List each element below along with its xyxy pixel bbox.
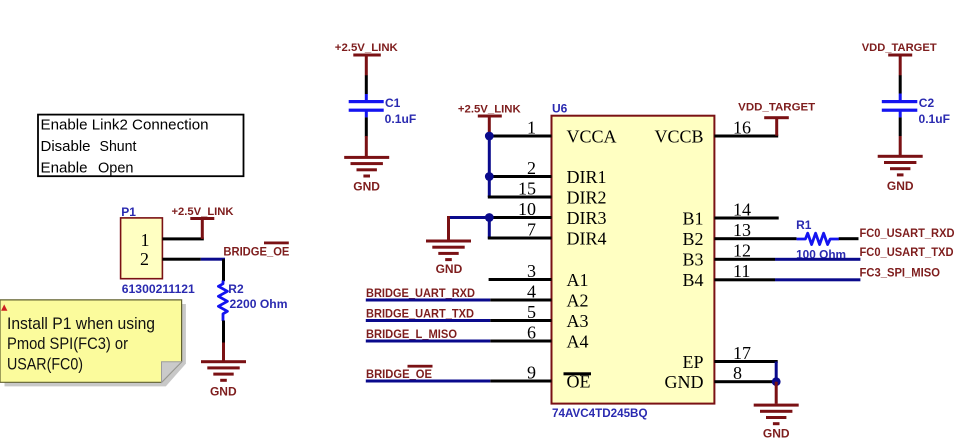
svg-text:B1: B1 [682,209,703,229]
svg-text:C1: C1 [385,96,401,110]
svg-text:Pmod SPI(FC3) or: Pmod SPI(FC3) or [7,334,128,353]
svg-text:B3: B3 [682,250,703,270]
svg-text:BRIDGE_OE: BRIDGE_OE [366,369,432,381]
svg-text:11: 11 [733,261,750,281]
svg-text:P1: P1 [121,205,136,219]
wire U6 pin8 [714,380,776,383]
power port +2.5V_LINK at C1 [335,42,399,75]
svg-text:A4: A4 [567,332,589,352]
svg-text:VCCA: VCCA [567,127,617,147]
wire C1 to GND [365,111,368,117]
svg-text:R1: R1 [796,218,812,232]
svg-text:BRIDGE_L_MISO: BRIDGE_L_MISO [366,329,457,341]
wire U6 pin9 black [490,380,551,383]
svg-text:GND: GND [763,427,790,441]
junction dot pin10 [485,213,494,222]
U6 pin numbers right [733,118,751,384]
svg-text:12: 12 [733,241,751,261]
svg-text:Open: Open [98,160,134,176]
ground GND at DIR3 branch [426,216,471,276]
wire U6 pin14 [714,217,778,220]
svg-text:GND: GND [436,262,463,276]
svg-text:FC3_SPI_MISO: FC3_SPI_MISO [860,268,941,280]
svg-text:BRIDGE_OE: BRIDGE_OE [223,247,289,259]
svg-text:DIR1: DIR1 [567,167,607,187]
svg-text:B4: B4 [682,270,703,290]
svg-text:Shunt: Shunt [100,139,137,155]
sticky note shadow [5,304,186,386]
svg-text:Enable: Enable [41,160,88,176]
ground GND below C1 [344,136,389,193]
svg-text:Enable Link2 Connection: Enable Link2 Connection [41,118,209,134]
svg-text:GND: GND [353,179,380,193]
wire U6 pin16 [714,135,778,138]
svg-text:DIR3: DIR3 [567,208,607,228]
svg-text:1: 1 [141,230,150,250]
svg-text:VDD_TARGET: VDD_TARGET [862,42,937,54]
wire U6 pin3 stub [489,278,552,281]
svg-text:GND: GND [665,372,704,392]
net label BRIDGE_OE at P1 [223,242,289,259]
svg-text:C2: C2 [919,96,935,110]
ground GND at EP/GND pins [754,382,799,441]
svg-text:0.1uF: 0.1uF [919,112,951,126]
U6 pin names left [564,127,617,392]
svg-text:U6: U6 [552,101,568,115]
wire P1 pin2 (black) [162,258,200,261]
IC U6 body [552,101,715,419]
svg-text:GND: GND [887,179,914,193]
svg-text:FC0_USART_RXD: FC0_USART_RXD [860,228,955,240]
svg-text:2200 Ohm: 2200 Ohm [230,297,288,311]
wire U6 pin11 black [714,278,775,281]
power port VDD_TARGET at C2 [862,42,937,75]
wire down to R2 (black) [222,259,225,281]
capacitor C2 [882,96,950,126]
wire U6 pin11 blue [775,278,860,281]
wire U6 pin13 left of R1 [714,237,796,240]
svg-text:+2.5V_LINK: +2.5V_LINK [335,42,399,54]
wire U6 pin1 [489,135,552,138]
svg-text:2: 2 [140,249,149,269]
wire U6 pin4 black [490,299,551,302]
net label BRIDGE_OE at pin9 [366,365,433,381]
svg-text:A1: A1 [567,270,589,290]
svg-text:FC0_USART_TXD: FC0_USART_TXD [860,247,954,259]
wire U6 pin12 blue [775,258,860,261]
svg-text:0.1uF: 0.1uF [385,112,417,126]
wire U6 pin13 right of R1 [839,237,859,240]
svg-text:8: 8 [733,363,742,383]
wire U6 pin7 [488,237,552,240]
wire P1 pin2 (blue segment) [201,258,225,261]
svg-text:VCCB: VCCB [654,127,703,147]
wire blue vertical pin17 to pin8 [775,362,778,382]
wire U6 pin6 blue [366,340,490,343]
text note box [38,115,244,177]
wire U6 pin6 black [490,340,551,343]
wire power to C2 [899,75,902,93]
power port +2.5V_LINK at U6 pin1 [458,103,522,134]
resistor R2 [218,281,287,321]
svg-text:A2: A2 [567,291,589,311]
ground GND below R2 [201,343,246,399]
svg-text:74AVC4TD245BQ: 74AVC4TD245BQ [552,406,648,420]
svg-text:R2: R2 [228,282,244,296]
sticky note [0,300,182,382]
wire U6 pin12 black [714,258,775,261]
svg-text:B2: B2 [682,229,703,249]
svg-text:61300211121: 61300211121 [122,282,195,296]
wire U6 pin5 blue [366,319,490,322]
wire power to C1 [365,75,368,94]
resistor R1 [796,218,846,261]
svg-text:GND: GND [210,384,237,398]
svg-text:+2.5V_LINK: +2.5V_LINK [458,103,522,115]
wire U6 pin4 blue [366,299,490,302]
wire R2 to GND [222,321,225,344]
svg-text:A3: A3 [567,311,589,331]
junction dot pin2 [485,172,494,181]
svg-text:+2.5V_LINK: +2.5V_LINK [172,206,235,218]
junction dot pin1 [485,132,494,141]
U6 pin numbers left [518,118,536,383]
connector P1 [121,205,196,296]
svg-text:Disable: Disable [41,139,91,155]
svg-text:DIR2: DIR2 [567,188,607,208]
wire U6 pin5 black [490,319,551,322]
wire U6 pin10 [489,216,552,219]
svg-text:BRIDGE_UART_TXD: BRIDGE_UART_TXD [366,308,474,320]
wire U6 pin15 [488,196,552,199]
wire C2 to GND [899,111,902,117]
capacitor C1 [349,96,417,126]
wire blue vertical pin1-pin15 [488,136,491,197]
wire blue vertical pin10-pin7 [488,218,491,239]
svg-text:EP: EP [682,352,703,372]
svg-text:DIR4: DIR4 [567,229,607,249]
svg-text:VDD_TARGET: VDD_TARGET [738,102,815,114]
note marker triangle [1,304,7,310]
wire blue GND branch at pin10 [449,216,491,219]
wire U6 pin17 [714,360,777,363]
ground GND below C2 [878,136,923,193]
junction dot pin8 [772,377,781,386]
wire U6 pin9 blue [366,380,490,383]
U6 pin names right [654,127,703,393]
power port VDD_TARGET at pin16 [738,102,815,136]
svg-text:USAR(FC0): USAR(FC0) [7,354,83,373]
svg-text:Install P1 when using: Install P1 when using [7,314,155,333]
wire P1 pin1 to +2.5V_LINK [162,237,203,240]
power port +2.5V_LINK at P1 [172,206,235,239]
svg-text:13: 13 [733,220,751,240]
wire U6 pin2 [489,175,552,178]
svg-text:BRIDGE_UART_RXD: BRIDGE_UART_RXD [366,288,475,300]
